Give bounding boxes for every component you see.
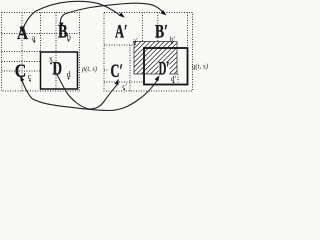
left solid subsquare [41,52,78,89]
right square internal vertical dotted line x=157.8 [157,13,159,42]
arrowhead at A' [119,12,125,17]
right square internal vertical dotted line x=130 [129,45,131,91]
svg-text:B′: B′ [155,22,168,43]
svg-text:D: D [53,59,63,80]
svg-text:c′: c′ [122,81,127,90]
right square short horizontal tick y=70 [104,69,109,71]
arrowhead at B' [161,10,167,15]
svg-text:b′: b′ [170,35,176,44]
svg-text:A: A [17,23,28,44]
left square internal horizontal dotted line y=51.5 [2,51,41,53]
svg-text:q(t, s): q(t, s) [192,62,208,71]
right square internal vertical dotted line x=178 [177,74,179,85]
right partition square (dotted outer border) [104,13,193,92]
svg-text:C: C [15,61,26,82]
left square internal horizontal dotted line y=61.5 [2,61,41,63]
arc C to D' (under the bottom) [21,77,159,111]
svg-text:D′: D′ [159,59,170,80]
arrowhead at D' [155,75,160,81]
left square internal horizontal dotted line y=71 [2,70,41,72]
white patch behind D' [159,63,170,75]
left square internal vertical dotted line x=22 [21,13,23,92]
arrowhead at C' [115,79,119,85]
arc B to B' (over the top) [60,3,162,27]
svg-text:p(t, s): p(t, s) [81,65,98,73]
right square internal vertical dotted line x=142.5 [142,13,144,49]
arc A to A' (over the top) [22,1,119,31]
hatched rectangle (image region) [134,42,177,75]
arrowhead at A [19,27,24,33]
left square internal horizontal dotted line y=33 [2,33,80,35]
left partition square (dotted outer border) [2,13,80,92]
arrowhead at B [59,22,63,27]
arc D to C' (under the bottom) [57,75,117,109]
left square internal vertical dotted line x=40.5 [40,13,42,53]
svg-text:A′: A′ [115,22,128,43]
right square internal horizontal dotted line y=82 [104,81,144,83]
svg-text:x: x [49,54,54,64]
svg-text:C′: C′ [111,61,124,82]
arrowhead at C [20,76,24,82]
left square internal vertical dotted line x=56 [55,13,57,90]
right square internal horizontal dotted line y=45 [104,44,176,46]
right solid subrectangle [144,48,188,85]
svg-text:c: c [28,71,32,81]
right square internal vertical dotted line x=187.5 [187,13,189,49]
